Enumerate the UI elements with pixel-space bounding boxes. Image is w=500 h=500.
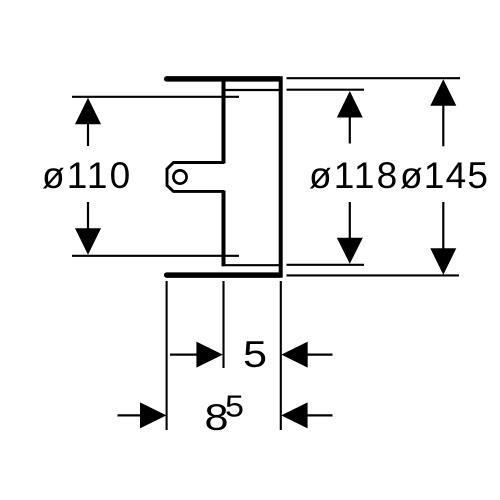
dim ø110 top extension line [72, 96, 239, 98]
inner wall lower segment [222, 191, 226, 267]
dim 8.5 right stem [307, 414, 333, 416]
label ø118 [309, 155, 399, 196]
dim ø145 up arrow [430, 79, 456, 106]
dim ø145 lower stem [442, 202, 444, 249]
dim ø110 bottom extension line [72, 255, 239, 257]
svg-text:ø118: ø118 [309, 155, 399, 196]
bottom left vertical extension line [166, 281, 168, 430]
dim ø110 down arrow [75, 228, 101, 255]
dim 5 left stem [170, 354, 198, 356]
inner wall upper segment [222, 79, 226, 164]
dim ø145 upper stem [442, 105, 444, 147]
dim ø118 upper stem [349, 117, 351, 144]
dim ø145 top extension line [287, 77, 461, 79]
dim 8.5 left-pointing arrow [281, 402, 307, 428]
dim ø145 bottom extension line [287, 274, 460, 276]
label 8 superscript 5 [205, 389, 245, 439]
dim ø110 up arrow [75, 98, 101, 125]
top inner shoulder line [222, 89, 281, 91]
label ø145 [400, 155, 489, 196]
dim ø118 top extension line [287, 89, 365, 91]
dim ø118 bottom extension line [287, 264, 365, 266]
bottom inner shoulder line [222, 264, 281, 266]
right outer wall [279, 76, 283, 278]
dim 5 right-pointing arrow [196, 342, 222, 368]
dim 5 right stem [307, 354, 333, 356]
svg-text:ø110: ø110 [42, 155, 132, 196]
bottom middle vertical extension line [222, 281, 224, 368]
dim 5 left-pointing arrow [281, 342, 307, 368]
svg-text:ø145: ø145 [400, 155, 489, 196]
dim ø118 down arrow [337, 238, 363, 264]
label 5 [243, 334, 267, 375]
retaining tab slot outline [167, 163, 224, 192]
bottom flange bar [167, 272, 280, 278]
dim ø118 up arrow [337, 91, 363, 118]
dim ø110 lower stem [87, 202, 89, 230]
bottom right vertical extension line [280, 281, 282, 430]
dim 8.5 right-pointing arrow [140, 402, 166, 428]
label ø110 [42, 155, 132, 196]
svg-text:5: 5 [243, 334, 267, 375]
dim 8.5 left stem [118, 414, 142, 416]
svg-text:5: 5 [225, 389, 244, 424]
dim ø118 lower stem [349, 202, 351, 240]
dim ø145 down arrow [430, 248, 456, 274]
dim ø110 upper stem [87, 123, 89, 146]
top flange bar [167, 76, 280, 82]
tab hole circle [173, 170, 186, 183]
